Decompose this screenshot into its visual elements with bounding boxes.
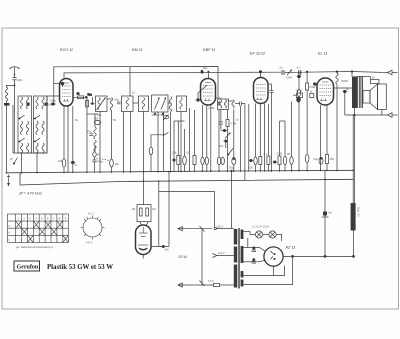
- tube EM11: [136, 225, 152, 255]
- speaker frame: [378, 84, 387, 110]
- svg-text:50µ: 50µ: [229, 166, 234, 170]
- coil bank box 2: [34, 96, 48, 153]
- cap 5n second: [298, 70, 300, 75]
- mains terminal 220V: [214, 227, 216, 229]
- bottom right arrow line: [345, 114, 388, 116]
- EBF top cap feed: [207, 71, 209, 73]
- svg-text:20k: 20k: [58, 159, 63, 163]
- resistor box: [177, 156, 180, 165]
- svg-text:50n: 50n: [165, 248, 170, 252]
- smoothing cap column: [324, 170, 326, 256]
- oscillator column frame: [73, 97, 87, 114]
- transformer core lines: [237, 228, 239, 289]
- svg-text:0,1M: 0,1M: [231, 122, 237, 126]
- wire antenna column down: [6, 101, 8, 173]
- transformer bottom to bus down: [353, 108, 355, 115]
- IF box D: [139, 96, 149, 112]
- EF top cap: [259, 71, 261, 73]
- cap 4n: [344, 90, 347, 93]
- wire coil bottoms join: [13, 152, 47, 154]
- svg-text:50n: 50n: [88, 93, 93, 97]
- svg-text:0,5M: 0,5M: [286, 76, 292, 80]
- coil B: [110, 98, 112, 111]
- AGC branch: [151, 135, 164, 147]
- lamp wires: [243, 231, 250, 233]
- mains arrow 110V: [213, 254, 218, 258]
- mains switch feed: [231, 171, 233, 229]
- svg-text:ger. Wellenbereichsumschaltung: ger. Wellenbereichsumschaltung m: [16, 246, 53, 249]
- svg-text:Plastik 53 GW et 53 W: Plastik 53 GW et 53 W: [47, 264, 113, 271]
- component value labels: [75, 66, 348, 170]
- resistor 4k: [93, 152, 96, 157]
- cap 50p: [117, 101, 121, 103]
- cap dark: [225, 140, 227, 142]
- wires under EF top area: [280, 120, 286, 122]
- EBF11 internals: [203, 83, 213, 101]
- svg-text:0,1: 0,1: [264, 152, 268, 156]
- tube EL11: [317, 78, 334, 105]
- svg-text:1M: 1M: [152, 207, 156, 211]
- tube socket diagram: [83, 218, 102, 237]
- svg-text:0,1: 0,1: [186, 151, 190, 155]
- EM11 feed wire: [143, 181, 145, 204]
- svg-text:150: 150: [330, 157, 335, 161]
- band switch contacts row 1: [20, 115, 25, 118]
- ECH11 grid cap dot: [61, 82, 64, 85]
- coupling cap 5n on L2: [281, 70, 283, 75]
- osc coil upper: [94, 127, 96, 139]
- resistor oval: [183, 156, 187, 165]
- 150 ohm box: [326, 155, 329, 164]
- trimmer cap B: [26, 103, 29, 106]
- resistor box: [226, 120, 229, 127]
- resistor 30k: [94, 121, 100, 125]
- 0,5M resistor box: [306, 83, 309, 90]
- wire antenna column down: [14, 85, 16, 153]
- heater dropper bar: [351, 203, 356, 231]
- svg-text:100p: 100p: [216, 96, 222, 100]
- svg-text:EM 11: EM 11: [132, 48, 143, 52]
- resistor at 307 bottom: [305, 154, 309, 162]
- svg-text:0,3k: 0,3k: [248, 166, 254, 170]
- svg-text:220 V: 220 V: [217, 225, 224, 229]
- svg-text:EF 11/12: EF 11/12: [250, 52, 266, 56]
- svg-text:0,5 A: 0,5 A: [208, 279, 214, 283]
- small box 5k: [310, 94, 314, 98]
- osc coil lower: [94, 140, 96, 151]
- svg-text:0,2M: 0,2M: [277, 152, 283, 156]
- EF internals: [256, 85, 266, 100]
- wire EBF region horizontals: [174, 120, 185, 122]
- IF coil box right of EBF: [218, 99, 229, 110]
- svg-text:Gerufon: Gerufon: [17, 265, 39, 271]
- wire ECH cathode down: [63, 106, 65, 159]
- svg-text:AZ 11: AZ 11: [285, 246, 296, 250]
- HT caps: [253, 247, 255, 249]
- AVC corner wire: [159, 192, 215, 228]
- junction dots on buses: [6, 170, 355, 183]
- EL grid cap dot: [314, 83, 317, 86]
- IF trimmer caps: [154, 113, 156, 115]
- svg-text:10n: 10n: [219, 144, 224, 148]
- bottom resistors: [201, 157, 204, 165]
- gang dashed link: [97, 158, 110, 161]
- coil bank windings right pair: [36, 97, 38, 109]
- cap 80p on L2: [201, 70, 204, 74]
- valve connection table: [8, 214, 69, 243]
- coil bank windings left pair: [20, 97, 22, 109]
- speaker voice coil: [363, 91, 370, 104]
- tube EF11/12: [254, 78, 269, 104]
- detector trimmer: [163, 116, 168, 119]
- trimmer cap A: [4, 103, 10, 106]
- svg-text:100p: 100p: [17, 78, 23, 82]
- TA arrow top: [178, 228, 212, 230]
- secondary bars: [241, 230, 244, 240]
- cap 300p below tube: [52, 103, 55, 106]
- tube EBF11: [201, 79, 216, 106]
- antenna capacitor 100p: [12, 78, 23, 86]
- junction dots on L2: [260, 71, 262, 73]
- top right arrow: [352, 72, 388, 73]
- IF box E (filter): [152, 95, 169, 112]
- tube AZ11: [264, 247, 283, 266]
- grid choke coil: [336, 73, 339, 84]
- IF drops to bus: [99, 112, 101, 173]
- table X marks: [16, 221, 22, 228]
- resistor 10k: [110, 159, 114, 167]
- svg-text:8 1 2: 8 1 2: [88, 212, 94, 216]
- svg-text:EBF 11: EBF 11: [203, 48, 215, 52]
- EL internals: [320, 82, 332, 101]
- osc grid resistor: [86, 100, 89, 107]
- wire EM11 label drop: [129, 67, 131, 97]
- svg-text:(53W): (53W): [341, 79, 348, 83]
- EL cathode drops: [320, 105, 322, 170]
- svg-text:2 x 6,3 V 0,3 A: 2 x 6,3 V 0,3 A: [252, 225, 269, 229]
- EBF grid cap dot: [197, 99, 200, 102]
- svg-text:ECH 11: ECH 11: [60, 48, 73, 52]
- osc coupling cap: [85, 96, 88, 99]
- AGC switch blade: [164, 132, 169, 135]
- EM11 wires right: [151, 246, 169, 248]
- wave switch: [14, 158, 18, 164]
- wire column x13: [12, 105, 14, 153]
- EBF cathode parts: cap: [173, 159, 175, 161]
- resistor 20k: [62, 159, 66, 167]
- svg-text:EL 11: EL 11: [318, 52, 328, 56]
- cap 0,1u below tube: [72, 161, 75, 164]
- second bus: [20, 179, 354, 185]
- volume pot arrow: [225, 133, 231, 139]
- svg-text:Heiz. 52: Heiz. 52: [357, 207, 361, 217]
- EM11 resistor box: [137, 205, 151, 222]
- cap 70p: [90, 133, 94, 135]
- speaker top box: [371, 80, 380, 84]
- wire L2 right part: [285, 72, 352, 73]
- speaker wires: [357, 76, 371, 78]
- coil F: [169, 97, 171, 112]
- AZ return loops: [243, 256, 292, 284]
- dial lamp 1: [255, 231, 262, 238]
- svg-text:80p: 80p: [203, 66, 208, 70]
- IF box C: [122, 96, 134, 112]
- svg-text:70p: 70p: [87, 130, 92, 134]
- wire ECH pin down: [67, 106, 69, 173]
- svg-text:0,1: 0,1: [74, 163, 78, 167]
- IF box G: [177, 96, 187, 112]
- wire antenna to coil: [7, 85, 15, 87]
- wire coil drops to bus: [21, 153, 23, 173]
- svg-text:1M: 1M: [287, 152, 291, 156]
- svg-text:Zf = 470 kHz: Zf = 470 kHz: [18, 191, 42, 196]
- junction cap dot: [223, 129, 225, 131]
- TA arrow bottom / fuse: [178, 284, 214, 286]
- coil single: [232, 100, 234, 108]
- antenna: [9, 67, 19, 78]
- svg-text:50p: 50p: [115, 98, 120, 102]
- svg-text:53 W: 53 W: [179, 255, 188, 259]
- cap right of EF: [270, 90, 274, 92]
- svg-text:300p: 300p: [50, 99, 56, 103]
- svg-text:50µ: 50µ: [314, 157, 319, 161]
- cap 100p right of tube: [218, 101, 220, 106]
- wire top loop L1: [54, 67, 218, 103]
- EBF chain down: cap: [219, 121, 223, 123]
- dial lamp 2: [269, 231, 276, 238]
- band switch contacts row 2: [20, 138, 25, 141]
- osc anode resistor box: [78, 96, 84, 99]
- svg-text:110 V: 110 V: [218, 251, 225, 255]
- ground symbol: [7, 175, 10, 187]
- tube ECH11: [60, 79, 74, 107]
- osc pad cap: [91, 103, 93, 105]
- svg-text:0,2M: 0,2M: [209, 106, 215, 110]
- cap 470p: [92, 159, 96, 161]
- resistor box 2: [193, 156, 196, 165]
- antenna junction dot: [14, 84, 16, 86]
- EF bottom components row: [254, 157, 257, 165]
- ECH11 internals: [62, 83, 71, 101]
- main bus: [7, 170, 354, 173]
- wire EBF screen drop: [189, 108, 191, 171]
- svg-text:8µ: 8µ: [329, 211, 332, 215]
- diagonal grid wire: [198, 85, 207, 99]
- wires secondary to AZ: [243, 247, 253, 249]
- 50u electrolytic: [232, 158, 236, 165]
- EM11 internals: [138, 227, 149, 250]
- antenna coil: [5, 87, 8, 101]
- AZ output wire: [283, 255, 353, 257]
- svg-text:10k: 10k: [115, 162, 120, 166]
- 50u electrolytic EL: [319, 157, 323, 164]
- wire top line L2: [64, 72, 281, 77]
- IF box A (osc): [96, 96, 108, 112]
- svg-text:25k: 25k: [172, 151, 177, 155]
- speaker cone: [370, 84, 378, 110]
- output transformer core: [352, 77, 358, 109]
- wire grid to coils: [47, 96, 60, 101]
- switch: [228, 149, 233, 155]
- coil bank box 1: [18, 96, 32, 153]
- svg-text:6 5 4: 6 5 4: [86, 241, 92, 245]
- power transformer primary bars: [234, 229, 237, 245]
- wire IF box C drops: [123, 112, 125, 173]
- speaker frame to line: [381, 110, 383, 116]
- pot arrow on L2: [287, 70, 292, 76]
- trimmer cap C / grid cap 50n: [45, 103, 48, 106]
- mains column: [201, 229, 203, 285]
- Gerufon box: [14, 261, 40, 271]
- svg-text:500: 500: [97, 113, 102, 117]
- svg-text:1M: 1M: [132, 207, 136, 211]
- resistor box 0,1M horizontal: [297, 93, 303, 98]
- EL grid column parts: [298, 75, 301, 78]
- svg-text:0,5M: 0,5M: [309, 85, 315, 89]
- cap at 240: [239, 102, 241, 106]
